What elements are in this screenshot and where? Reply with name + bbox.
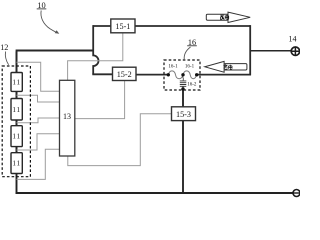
sense line cell1 top tap to module 13 port 1 [17,62,60,91]
svg-text:16-2: 16-2 [187,83,197,88]
junction dot right 16 [195,73,198,76]
svg-text:14: 14 [289,35,297,44]
leader arrow from 10 [41,11,56,33]
label discharge text [220,15,228,20]
svg-text:11: 11 [12,160,21,168]
wire unit left edge with hop over sense line [93,25,98,74]
box 15-2 [113,67,137,80]
discharge block arrow [206,12,250,22]
wire unit top edge y=26 [93,25,250,27]
sense line 13 right port to 15-2 bottom [75,80,125,119]
svg-text:13: 13 [63,112,71,121]
positive terminal 14 [291,47,299,55]
battery cell 11 (3) [11,126,22,147]
svg-text:15-3: 15-3 [176,110,191,119]
wire inter-cell connectors [16,91,18,154]
sense line tap2 cell2-cell3 junction to 13 port 3 [17,118,60,123]
svg-text:15-2: 15-2 [117,70,132,79]
dashed box 12 battery pack [2,66,30,177]
label charge text [223,64,232,69]
resistor 16-2 vertical element [180,75,187,89]
module 13 monitoring unit [60,80,75,156]
leader from 16 [184,47,190,59]
sense line tap4 battery negative to 13 port 5 [17,149,60,179]
svg-text:12: 12 [0,43,8,52]
fuse 16-1 right squiggle [183,71,197,79]
wire output to positive terminal 14 [250,50,291,52]
charge block arrow [205,61,247,72]
svg-text:16-1: 16-1 [168,65,178,70]
battery cell 11 (4) [11,153,22,174]
junction dot left 16 [167,73,170,76]
junction dot center 16 [181,73,184,76]
svg-text:11: 11 [12,79,21,87]
wire bottom edge 16 right to right edge [197,74,251,76]
svg-text:16-1: 16-1 [185,65,195,70]
box 15-3 [172,107,196,121]
wire battery positive top: cell1 top to left edge of unit [16,51,94,74]
wire 16-2 resistor down to 15-3 [182,89,184,107]
negative terminal [293,190,300,197]
svg-text:11: 11 [12,106,21,114]
battery cell 11 (2) [11,99,22,121]
svg-text:11: 11 [12,133,21,141]
battery cell 11 (1) [11,73,22,92]
junction dot resistor bottom [181,87,184,90]
fuse 16-1 left squiggle [168,71,183,79]
svg-text:15-1: 15-1 [115,22,130,31]
wire unit right edge [249,25,251,75]
wire battery negative bottom bus [16,173,294,193]
sense line module 13 top port up and right to 15-1 bottom [68,33,123,81]
leader from 12 [5,52,8,65]
sense line 13 bottom port to 15-3 left port [68,114,172,166]
sense line tap1 cell1-cell2 junction to 13 port 2 [17,95,60,102]
box 15-1 [111,19,135,33]
sense line tap3 cell3-cell4 junction to 13 port 4 [17,134,60,150]
wire bottom edge left segment to 15-2 [92,73,112,75]
dashed box 16 protector [164,60,200,90]
wire bottom edge 15-2 to 16 to right edge [136,74,169,76]
wire 15-3 down to bottom bus [182,121,184,194]
